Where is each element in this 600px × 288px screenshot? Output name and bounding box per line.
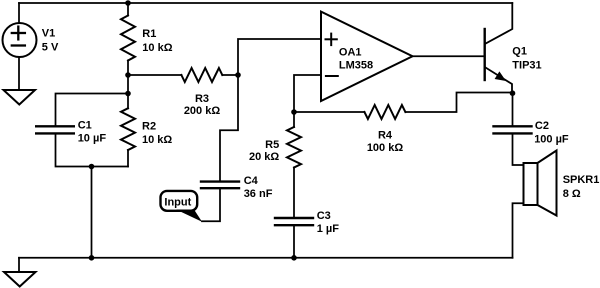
input flag [161, 191, 198, 211]
wire speaker bottom [513, 203, 524, 257]
svg-text:8 Ω: 8 Ω [563, 188, 581, 200]
svg-text:36 nF: 36 nF [244, 188, 273, 200]
wire top rail [19, 2, 512, 4]
wire C4 bottom to input flag [202, 188, 220, 221]
ground bottom left [4, 272, 36, 287]
wire R4 right to emitter [405, 93, 512, 113]
svg-text:1 µF: 1 µF [317, 223, 340, 235]
wire R3 left [128, 74, 181, 76]
capacitor C3 [275, 218, 313, 225]
wire C2 to speaker [513, 133, 524, 165]
svg-text:5 V: 5 V [42, 42, 59, 54]
wire bottom rail [19, 257, 513, 259]
svg-text:R5: R5 [265, 139, 279, 151]
wire R2 bottom [127, 150, 129, 167]
wire emitter to C2 [512, 93, 514, 127]
wire minus input path [294, 75, 321, 112]
svg-text:10 kΩ: 10 kΩ [142, 42, 172, 54]
svg-text:LM358: LM358 [339, 60, 373, 72]
svg-text:Q1: Q1 [512, 46, 527, 58]
svg-text:OA1: OA1 [339, 47, 362, 59]
voltage source V1 [3, 23, 37, 57]
svg-text:R2: R2 [142, 120, 156, 132]
resistor R3 [181, 68, 222, 82]
capacitor C4 [201, 182, 239, 189]
svg-text:R1: R1 [142, 28, 156, 40]
capacitor C2 [494, 126, 532, 133]
svg-text:C3: C3 [317, 210, 331, 222]
wire C3 bottom [293, 225, 295, 258]
resistor R4 [364, 105, 405, 119]
svg-text:R3: R3 [195, 93, 209, 105]
transistor Q1 [484, 29, 486, 80]
resistor R1 [127, 3, 129, 16]
wire op-amp output [413, 55, 485, 57]
op-amp OA1 [321, 12, 413, 101]
wire node to C4 [220, 75, 238, 182]
wire R4 left [294, 111, 364, 113]
wire V1 top stub [18, 3, 20, 22]
resistor R5 [293, 112, 295, 127]
wire C1 bottom loop [56, 133, 129, 166]
wire ground drop [91, 167, 93, 258]
svg-text:R4: R4 [378, 130, 393, 142]
svg-text:20 kΩ: 20 kΩ [249, 151, 279, 163]
wire plus input path [238, 39, 321, 75]
wire C1 top [56, 94, 129, 127]
resistor R2 [121, 108, 135, 150]
svg-text:C1: C1 [78, 120, 92, 132]
wire R5 to C3 [293, 168, 295, 219]
svg-text:SPKR1: SPKR1 [563, 174, 600, 186]
svg-text:C4: C4 [244, 175, 259, 187]
svg-text:Input: Input [164, 197, 191, 209]
svg-text:10 kΩ: 10 kΩ [142, 134, 172, 146]
wire ground left stub [18, 258, 20, 272]
svg-text:100 kΩ: 100 kΩ [367, 142, 404, 154]
capacitor C1 [36, 126, 74, 133]
wire R1 to R2 [127, 61, 129, 109]
svg-text:C2: C2 [535, 120, 549, 132]
wire V1 bottom stub [18, 57, 20, 90]
ground under V1 [4, 90, 36, 105]
svg-text:10 µF: 10 µF [78, 133, 107, 145]
svg-text:TIP31: TIP31 [512, 60, 541, 72]
wire R3 right [222, 74, 238, 76]
svg-text:100 µF: 100 µF [534, 133, 569, 145]
svg-text:V1: V1 [42, 28, 55, 40]
svg-text:200 kΩ: 200 kΩ [184, 105, 221, 117]
speaker SPKR1 [524, 163, 538, 205]
